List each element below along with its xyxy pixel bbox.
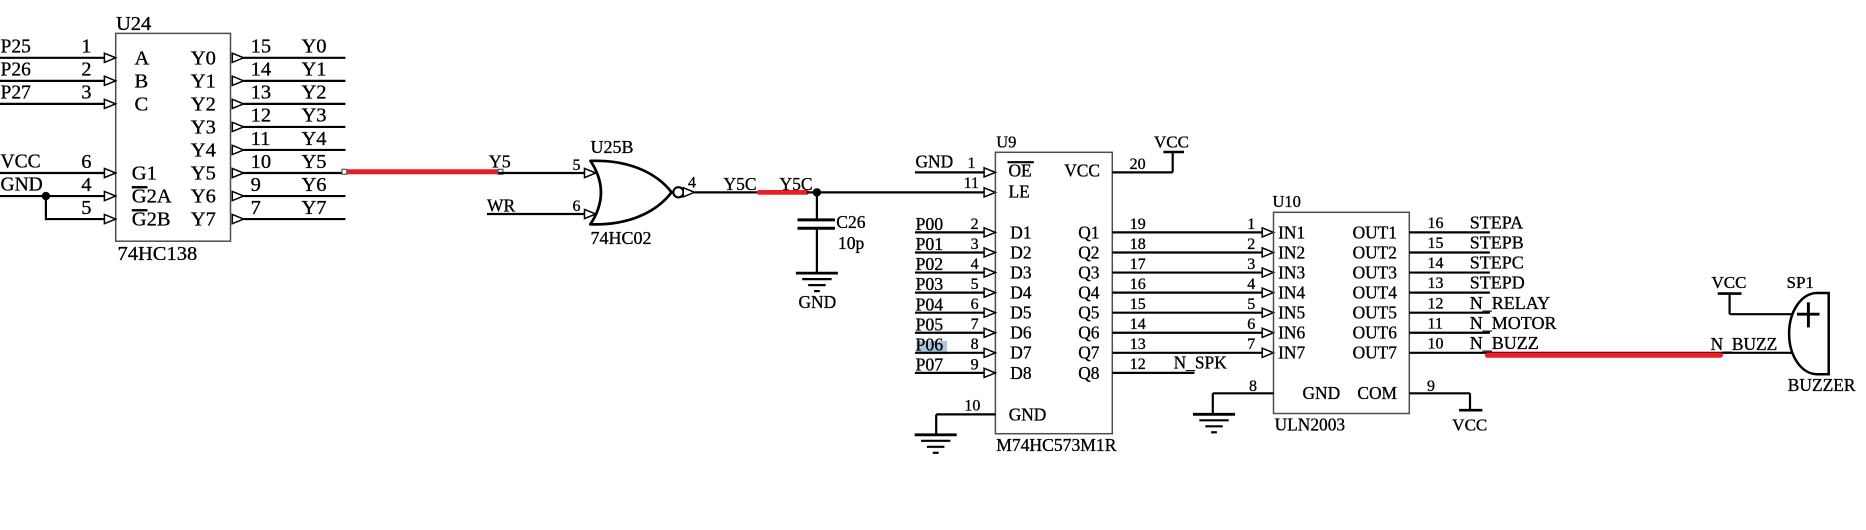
svg-text:M74HC573M1R: M74HC573M1R	[996, 435, 1117, 455]
capacitor C26 top lead wire	[816, 192, 818, 219]
svg-text:OUT7: OUT7	[1353, 343, 1398, 363]
svg-text:ULN2003: ULN2003	[1275, 415, 1346, 435]
wire U9 pin 10 GND	[936, 413, 995, 415]
svg-text:GND: GND	[916, 152, 954, 172]
svg-text:U24: U24	[116, 13, 151, 35]
ground symbol below U10 pin 8	[1193, 413, 1235, 416]
svg-text:D2: D2	[1010, 242, 1031, 262]
svg-text:P27: P27	[1, 82, 32, 103]
svg-text:Q2: Q2	[1078, 242, 1099, 262]
svg-text:3: 3	[1247, 256, 1255, 273]
svg-text:Q4: Q4	[1078, 283, 1100, 303]
svg-text:Y1: Y1	[302, 59, 327, 81]
svg-text:4: 4	[1247, 276, 1255, 293]
svg-text:18: 18	[1130, 236, 1146, 253]
wire U9 Q1 pin 19 to U10 IN1 pin 1	[1112, 231, 1262, 233]
wire U24 pin 7 output Y7	[232, 214, 243, 223]
svg-text:U25B: U25B	[591, 137, 634, 157]
wire U24 pin 10 output Y5	[232, 168, 243, 177]
svg-text:G1: G1	[132, 163, 157, 185]
svg-text:Y2: Y2	[302, 82, 327, 104]
wire GND net vertical to pin 5	[45, 196, 47, 220]
wire U10 OUT1 pin 16 net STEPA	[1409, 231, 1490, 233]
svg-text:P25: P25	[1, 36, 31, 57]
svg-text:N_BUZZ: N_BUZZ	[1470, 333, 1539, 353]
wire WR to U25B pin 6	[487, 213, 585, 215]
svg-text:16: 16	[1130, 276, 1146, 293]
IC U24 74HC138 decoder body	[116, 33, 231, 241]
wire Y5 to U25B pin 5	[498, 172, 584, 174]
svg-text:P04: P04	[916, 294, 944, 314]
wire U24 pin 13 output Y2	[232, 99, 243, 108]
svg-text:LE: LE	[1009, 182, 1030, 202]
svg-text:10p: 10p	[838, 233, 865, 253]
capacitor C26 bottom lead wire	[816, 228, 818, 273]
svg-text:C26: C26	[836, 212, 865, 232]
svg-text:15: 15	[1130, 296, 1146, 313]
svg-text:8: 8	[971, 336, 979, 353]
svg-text:4: 4	[971, 256, 979, 273]
ground symbol below U9 pin 10	[915, 433, 957, 436]
svg-text:1: 1	[1247, 216, 1255, 233]
wire down to ground from U10 pin 8	[1212, 393, 1214, 414]
svg-text:1: 1	[968, 155, 976, 172]
wire Y5 highlighted red segment	[345, 169, 499, 174]
nor-gate U25B 74HC02 body	[590, 161, 671, 225]
svg-text:2: 2	[81, 59, 91, 81]
svg-text:Y3: Y3	[302, 105, 327, 127]
svg-text:4: 4	[688, 174, 696, 191]
svg-text:4: 4	[81, 174, 91, 196]
svg-text:U10: U10	[1273, 192, 1301, 211]
U25B output inversion bubble	[673, 187, 683, 197]
wire U10 pin 8 GND	[1213, 392, 1274, 394]
svg-text:IN1: IN1	[1278, 222, 1305, 242]
highlight box on node P06	[917, 341, 948, 354]
svg-text:Q3: Q3	[1078, 262, 1100, 282]
svg-text:11: 11	[964, 175, 979, 192]
wire U9 pin 9 D8 from P07	[915, 372, 984, 374]
wire U10 pin 9 COM to VCC	[1409, 392, 1470, 394]
svg-text:3: 3	[971, 236, 979, 253]
svg-text:Y2: Y2	[191, 93, 216, 115]
svg-text:OUT5: OUT5	[1353, 303, 1398, 323]
svg-text:14: 14	[251, 59, 272, 81]
svg-text:D1: D1	[1010, 222, 1031, 242]
svg-text:12: 12	[251, 105, 272, 127]
svg-text:OUT3: OUT3	[1353, 262, 1398, 282]
svg-text:Y7: Y7	[302, 197, 327, 219]
svg-text:VCC: VCC	[1, 152, 41, 173]
svg-text:P06: P06	[916, 334, 944, 354]
svg-text:VCC: VCC	[1154, 133, 1189, 152]
selection handle left of Y5 red wire	[342, 169, 347, 174]
wire Y5C to U9 pin 11	[807, 191, 985, 193]
svg-text:15: 15	[251, 36, 272, 58]
wire U10 OUT4 pin 13 net STEPD	[1409, 292, 1490, 294]
svg-text:STEPA: STEPA	[1470, 213, 1523, 233]
svg-text:P07: P07	[916, 354, 944, 374]
svg-text:A: A	[135, 47, 150, 69]
svg-text:P01: P01	[916, 234, 944, 254]
wire U10 OUT2 pin 15 net STEPB	[1409, 251, 1490, 253]
svg-text:Q1: Q1	[1078, 222, 1099, 242]
svg-text:5: 5	[81, 197, 91, 219]
wire U9 pin 6 D5 from P04	[915, 312, 984, 314]
wire U10 OUT5 pin 12 net N_RELAY	[1409, 312, 1490, 314]
svg-text:5: 5	[573, 157, 581, 174]
buzzer plus sign	[1797, 313, 1820, 316]
wire U9 pin 3 D2 from P01	[915, 251, 984, 253]
svg-text:IN3: IN3	[1278, 262, 1305, 282]
svg-text:VCC: VCC	[1064, 160, 1100, 180]
wire U10 OUT3 pin 14 net STEPC	[1409, 271, 1490, 273]
svg-text:VCC: VCC	[1712, 273, 1747, 292]
svg-text:Y4: Y4	[191, 140, 216, 162]
wire U9 Q4 pin 16 to U10 IN4 pin 4	[1112, 292, 1262, 294]
svg-text:BUZZER: BUZZER	[1788, 375, 1856, 395]
svg-text:Y3: Y3	[191, 117, 216, 139]
svg-text:OE: OE	[1009, 160, 1032, 180]
svg-text:15: 15	[1428, 235, 1444, 252]
svg-text:OUT6: OUT6	[1353, 323, 1398, 343]
svg-text:5: 5	[971, 276, 979, 293]
svg-text:GND: GND	[1, 175, 43, 196]
svg-text:74HC138: 74HC138	[118, 243, 198, 265]
svg-text:P03: P03	[916, 274, 944, 294]
svg-text:9: 9	[251, 174, 261, 196]
svg-text:Y5C: Y5C	[724, 174, 757, 194]
svg-text:N_SPK: N_SPK	[1174, 353, 1228, 373]
svg-text:8: 8	[1249, 378, 1257, 395]
svg-text:STEPD: STEPD	[1470, 273, 1525, 293]
wire down to ground from U9 pin 10	[935, 414, 937, 434]
wire VCC to buzzer plus terminal	[1730, 313, 1793, 315]
svg-text:6: 6	[1247, 316, 1255, 333]
svg-text:D6: D6	[1010, 323, 1032, 343]
svg-text:Y7: Y7	[191, 209, 216, 231]
svg-text:3: 3	[81, 82, 91, 104]
svg-text:14: 14	[1428, 255, 1444, 272]
svg-text:COM: COM	[1357, 383, 1397, 403]
wire U9 pin 4 D3 from P02	[915, 271, 984, 273]
wire U24 pin 3 (P27)	[0, 103, 104, 105]
svg-text:6: 6	[971, 296, 979, 313]
IC U10 ULN2003 driver body	[1274, 212, 1410, 413]
VCC power symbol below U10 pin 9	[1469, 393, 1471, 410]
svg-text:SP1: SP1	[1787, 273, 1814, 292]
svg-text:G2B: G2B	[132, 209, 171, 231]
svg-text:D8: D8	[1010, 363, 1032, 383]
wire U24 pin 9 output Y6	[232, 191, 243, 200]
wire U24 pin 4 (GND)	[0, 195, 104, 197]
svg-text:6: 6	[81, 151, 91, 173]
wire U9 Q7 pin 13 to U10 IN7 pin 7	[1112, 352, 1262, 354]
U25B output arrowhead pin 4	[683, 188, 694, 197]
junction on GND net	[42, 192, 50, 200]
wire Y5 under highlight	[346, 172, 499, 174]
svg-text:Y1: Y1	[191, 70, 216, 92]
svg-text:IN7: IN7	[1278, 343, 1305, 363]
svg-text:5: 5	[1247, 296, 1255, 313]
wire N_BUZZ to buzzer	[1409, 352, 1793, 354]
wire U24 pin 14 output Y1	[232, 76, 243, 85]
svg-text:Y5: Y5	[489, 152, 511, 172]
wire Y5C highlighted red segment	[759, 190, 807, 195]
svg-text:D7: D7	[1010, 343, 1032, 363]
svg-text:GND: GND	[1009, 405, 1047, 425]
svg-text:Y5: Y5	[191, 163, 216, 185]
svg-text:N_MOTOR: N_MOTOR	[1470, 313, 1557, 333]
svg-text:Q6: Q6	[1078, 323, 1100, 343]
svg-text:11: 11	[1428, 315, 1443, 332]
wire Y5C from gate output	[695, 191, 760, 193]
svg-text:STEPC: STEPC	[1470, 253, 1524, 273]
wire U9 Q2 pin 18 to U10 IN2 pin 2	[1112, 251, 1262, 253]
svg-text:12: 12	[1130, 356, 1146, 373]
svg-text:D3: D3	[1010, 262, 1032, 282]
wire U9 pin 2 D1 from P00	[915, 231, 984, 233]
svg-text:2: 2	[1247, 236, 1255, 253]
svg-text:P00: P00	[916, 214, 944, 234]
svg-text:Q7: Q7	[1078, 343, 1100, 363]
wire U24 pin 15 output Y0	[232, 53, 243, 62]
wire U9 Q3 pin 17 to U10 IN3 pin 3	[1112, 271, 1262, 273]
svg-text:7: 7	[251, 197, 261, 219]
selection handle right of Y5 red wire	[498, 169, 503, 174]
svg-text:74HC02: 74HC02	[591, 228, 652, 248]
svg-text:IN5: IN5	[1278, 303, 1305, 323]
wire U9 pin 12 Q8 N_SPK	[1112, 372, 1194, 374]
svg-text:16: 16	[1428, 215, 1444, 232]
wire U9 pin 8 D7 from P06	[915, 352, 984, 354]
svg-text:10: 10	[964, 398, 980, 415]
wire U24 pin 1 (P25)	[0, 57, 104, 59]
svg-text:Y6: Y6	[191, 186, 216, 208]
svg-text:Q5: Q5	[1078, 303, 1100, 323]
svg-text:B: B	[135, 70, 149, 92]
svg-text:17: 17	[1130, 256, 1146, 273]
svg-text:Y5C: Y5C	[780, 174, 813, 194]
ground symbol below C26	[796, 272, 838, 275]
svg-text:U9: U9	[996, 133, 1016, 152]
svg-text:7: 7	[971, 316, 979, 333]
svg-text:OUT2: OUT2	[1353, 242, 1397, 262]
svg-text:10: 10	[251, 151, 272, 173]
svg-text:14: 14	[1130, 316, 1146, 333]
wire U9 pin 1 OE	[915, 171, 984, 173]
svg-text:7: 7	[1247, 336, 1255, 353]
svg-text:IN4: IN4	[1278, 283, 1305, 303]
wire U24 pin 11 output Y4	[232, 145, 243, 154]
capacitor C26 plates	[798, 218, 836, 221]
svg-text:GND: GND	[1303, 383, 1341, 403]
svg-text:GND: GND	[799, 292, 837, 312]
wire U9 pin 5 D4 from P03	[915, 292, 984, 294]
svg-text:Y0: Y0	[191, 47, 216, 69]
svg-text:13: 13	[1428, 275, 1444, 292]
svg-text:Y4: Y4	[302, 128, 327, 150]
wire N_BUZZ highlighted red segment	[1488, 353, 1721, 358]
svg-text:N_BUZZ: N_BUZZ	[1711, 334, 1778, 354]
junction Y5C to capacitor C26	[813, 188, 821, 196]
svg-text:OUT1: OUT1	[1353, 222, 1397, 242]
svg-text:OUT4: OUT4	[1353, 283, 1398, 303]
svg-text:P05: P05	[916, 314, 944, 334]
wire U24 pin 12 output Y3	[232, 122, 243, 131]
svg-text:C: C	[135, 93, 149, 115]
svg-text:P02: P02	[916, 254, 944, 274]
svg-text:Q8: Q8	[1078, 363, 1100, 383]
svg-text:10: 10	[1428, 335, 1444, 352]
wire U24 pin 2 (P26)	[0, 80, 104, 82]
svg-text:6: 6	[573, 198, 581, 215]
svg-text:D4: D4	[1010, 283, 1032, 303]
svg-text:20: 20	[1130, 156, 1146, 173]
svg-text:19: 19	[1130, 216, 1146, 233]
svg-text:G2A: G2A	[132, 186, 172, 208]
svg-text:IN2: IN2	[1278, 242, 1305, 262]
svg-text:WR: WR	[487, 195, 516, 215]
IC U9 M74HC573M1R latch body	[995, 152, 1112, 433]
wire U24 pin 5 (GND)	[46, 218, 105, 220]
svg-text:D5: D5	[1010, 303, 1032, 323]
svg-text:13: 13	[1130, 336, 1146, 353]
svg-text:11: 11	[251, 128, 271, 150]
svg-text:Y6: Y6	[302, 174, 327, 196]
svg-text:N_RELAY: N_RELAY	[1470, 293, 1550, 313]
svg-text:VCC: VCC	[1452, 416, 1487, 435]
wire U24 pin 6 (VCC)	[0, 172, 104, 174]
svg-text:Y5: Y5	[302, 151, 327, 173]
svg-text:13: 13	[251, 82, 272, 104]
wire U9 Q6 pin 14 to U10 IN6 pin 6	[1112, 332, 1262, 334]
wire U9 pin 7 D6 from P05	[915, 332, 984, 334]
svg-text:P26: P26	[1, 59, 32, 80]
svg-text:2: 2	[971, 216, 979, 233]
buzzer SP1 body	[1789, 293, 1829, 374]
VCC power symbol above U9 pin 20	[1172, 152, 1174, 172]
svg-text:Y0: Y0	[302, 36, 327, 58]
svg-text:12: 12	[1428, 295, 1444, 312]
svg-text:9: 9	[1427, 378, 1435, 395]
svg-text:1: 1	[81, 36, 91, 58]
wire U9 pin 20 VCC	[1112, 171, 1172, 173]
wire U9 Q5 pin 15 to U10 IN5 pin 5	[1112, 312, 1262, 314]
svg-text:9: 9	[971, 356, 979, 373]
wire U10 OUT6 pin 11 net N_MOTOR	[1409, 332, 1490, 334]
svg-text:STEPB: STEPB	[1470, 233, 1524, 253]
svg-text:IN6: IN6	[1278, 323, 1305, 343]
